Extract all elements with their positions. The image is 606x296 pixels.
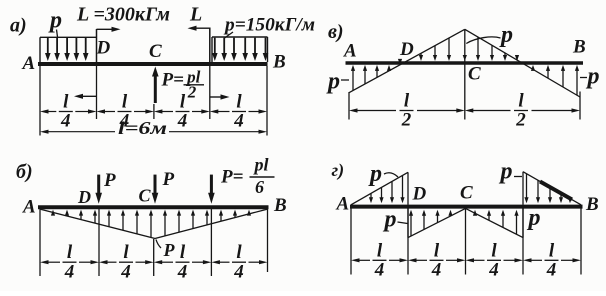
triangular load V on AB [40, 209, 268, 238]
svg-text:г): г) [332, 160, 345, 181]
svg-text:D: D [96, 38, 111, 59]
dimension l/4 (C-E) [154, 92, 210, 132]
dimension l/4 (C-E g) [466, 240, 524, 280]
svg-text:B: B [273, 195, 287, 216]
svg-text:A: A [343, 41, 357, 62]
svg-text:l: l [63, 92, 69, 113]
beam AB (diagram g) [350, 205, 583, 209]
moment L at D: arm and upper arrow [97, 27, 121, 62]
dimension l/4 (C-E b) [154, 242, 212, 282]
node label C (v) [468, 64, 481, 85]
svg-text:l: l [236, 242, 242, 263]
extension line at C (b) [153, 239, 155, 276]
beam AB (diagram a) [38, 62, 268, 66]
downward load arrows C-E (v) [476, 37, 519, 61]
dimension l/4 (D-C g) [408, 240, 466, 280]
svg-text:l: l [434, 240, 440, 261]
triangular load 3 on C-E below beam (g) [466, 208, 524, 237]
node label B (g) [585, 194, 599, 215]
svg-text:L: L [189, 4, 202, 26]
svg-text:2: 2 [187, 83, 197, 102]
extension line at D (b) [98, 209, 100, 276]
svg-text:2: 2 [515, 110, 526, 131]
svg-text:p: p [499, 159, 513, 185]
moment L at E: lower arrow [210, 94, 230, 99]
svg-text:P: P [163, 240, 176, 260]
node label C [149, 41, 162, 62]
svg-text:l: l [122, 92, 128, 113]
node label C (g) [460, 183, 473, 204]
svg-text:p: p [326, 69, 340, 95]
node label A (b) [22, 197, 36, 218]
svg-text:C: C [139, 186, 152, 206]
svg-text:p: p [383, 207, 397, 233]
extension line at A (b) [39, 209, 41, 276]
extension line at C with load arrowhead (v) [463, 29, 467, 119]
node label C (b) [139, 186, 152, 206]
triangular load 2 on D-C below beam (g) [408, 208, 466, 237]
force P=pl/6 at E (b) [208, 155, 274, 204]
svg-text:L =300кГм: L =300кГм [76, 4, 170, 26]
label a) [10, 15, 27, 37]
svg-text:l: l [404, 91, 410, 112]
label b) [16, 161, 33, 183]
extension line at B (g) [580, 208, 582, 274]
label v) [328, 21, 344, 43]
force P at C (b) [152, 169, 175, 204]
svg-text:B: B [272, 52, 286, 73]
dimension l/4 (A-D g) [351, 240, 408, 280]
node label D [96, 38, 111, 59]
triangular load 4 on E-B above beam (g) [523, 172, 581, 205]
label g) [332, 160, 345, 181]
svg-text:l: l [236, 92, 242, 113]
svg-text:P=: P= [161, 70, 184, 91]
svg-text:4: 4 [233, 261, 244, 282]
svg-text:а): а) [10, 15, 27, 37]
dimension l/2 (A-C v) [349, 91, 465, 131]
label P at load vertex (b) [156, 240, 176, 261]
dimension l/4 (D-C) [97, 92, 154, 132]
svg-text:B: B [572, 37, 586, 58]
extension line at C (g) [465, 208, 467, 274]
value label p=150kG/m [223, 15, 315, 38]
svg-text:l: l [180, 92, 186, 113]
svg-text:4: 4 [177, 111, 188, 132]
svg-text:P: P [103, 170, 116, 191]
moment L at E: arm and upper arrow [188, 26, 210, 62]
svg-text:l: l [377, 240, 383, 261]
node label A (v) [343, 41, 357, 62]
svg-text:C: C [149, 41, 162, 62]
svg-text:p: p [499, 22, 513, 48]
dimension l/4 (E-B) [210, 92, 267, 132]
dimension l=6m (A-B) [40, 118, 267, 138]
beam AB (diagram v) [346, 61, 584, 65]
label p left (v) [326, 69, 349, 95]
label p (load 2 g) [383, 207, 408, 233]
dimension l/4 (E-B b) [211, 242, 267, 282]
svg-text:p: p [48, 8, 62, 34]
dimension l/4 (E-B g) [523, 240, 581, 280]
svg-text:p: p [527, 205, 541, 231]
value label L=300kGm [76, 4, 170, 26]
extension line at A [39, 66, 41, 136]
svg-text:6: 6 [255, 177, 264, 197]
svg-text:l: l [491, 240, 497, 261]
force P=pl/2 at C [152, 67, 204, 104]
svg-text:4: 4 [177, 261, 188, 282]
extension line at E (b) [210, 209, 212, 276]
upward load arrows E-B (v) [531, 65, 579, 95]
svg-text:l: l [549, 240, 555, 261]
node label A (g) [336, 194, 350, 215]
svg-text:B: B [585, 194, 599, 215]
label p (load 4 g) [499, 159, 523, 185]
triangular load line peak to B (v) [465, 29, 580, 97]
extension line at E (g) [522, 208, 524, 274]
label L (moment at E) [189, 4, 202, 26]
dimension l/4 (A-D) [40, 92, 97, 132]
svg-text:l: l [67, 242, 73, 263]
upward load arrows A-D (v) [351, 59, 402, 91]
triangular load 1 on A-D above beam (g) [351, 172, 408, 205]
svg-text:l: l [518, 91, 524, 112]
moment L at D: lower arrow [74, 94, 97, 99]
extension line at E [209, 66, 211, 119]
downward load arrows D-C (v) [419, 38, 451, 61]
dimension l/2 (C-B v) [465, 91, 580, 131]
svg-text:C: C [460, 183, 473, 204]
label p right (v) [580, 64, 600, 90]
node label B [272, 52, 286, 73]
extension line at A (v) [348, 92, 350, 120]
svg-text:A: A [22, 197, 36, 218]
svg-text:D: D [399, 39, 414, 60]
force P at D (b) [95, 170, 116, 204]
svg-text:4: 4 [546, 260, 557, 281]
dimension l/4 (A-D b) [40, 242, 99, 282]
svg-text:4: 4 [374, 260, 385, 281]
extension line at C [153, 104, 155, 119]
svg-text:l: l [180, 242, 186, 263]
svg-text:D: D [77, 187, 91, 207]
triangular load line A to peak (v) [349, 29, 465, 92]
extension line at B (v) [579, 92, 581, 120]
svg-text:p: p [368, 161, 382, 187]
node label D (v) [399, 39, 414, 60]
distributed load p on E-B [212, 37, 268, 62]
svg-text:4: 4 [431, 260, 442, 281]
extension line at B (b) [267, 209, 269, 272]
svg-text:4: 4 [488, 260, 499, 281]
node label A [22, 53, 36, 74]
svg-text:p=150кГ/м: p=150кГ/м [223, 15, 315, 36]
extension line at D [96, 66, 98, 119]
svg-text:4: 4 [64, 261, 75, 282]
extension line at A (g) [350, 208, 352, 274]
node label D (g) [412, 184, 427, 205]
node label B (b) [273, 195, 287, 216]
svg-text:A: A [336, 194, 350, 215]
label p peak (v) [466, 22, 513, 48]
svg-text:l=6м: l=6м [118, 118, 167, 138]
svg-text:4: 4 [120, 261, 131, 282]
svg-text:pl: pl [252, 155, 268, 175]
dimension l/4 (D-C b) [99, 242, 154, 282]
beam AB (diagram b) [38, 205, 269, 209]
distributed load p on A-D [40, 37, 97, 62]
label p (load 1 g) [368, 161, 398, 187]
svg-text:D: D [412, 184, 427, 205]
extension line at B [266, 66, 268, 136]
extension line at D (g) [407, 208, 409, 274]
node label B (v) [572, 37, 586, 58]
svg-text:в): в) [328, 21, 344, 43]
svg-text:4: 4 [60, 111, 71, 132]
svg-text:A: A [22, 53, 36, 74]
label p (load 3 g) [527, 205, 541, 231]
svg-text:l: l [123, 242, 129, 263]
svg-text:б): б) [16, 161, 33, 183]
svg-text:P=: P= [220, 167, 243, 188]
svg-text:4: 4 [233, 111, 244, 132]
svg-text:P: P [162, 169, 175, 190]
svg-text:p: p [586, 64, 600, 90]
node label D (b) [77, 187, 91, 207]
label p (left load) [48, 8, 62, 38]
svg-text:2: 2 [401, 110, 412, 131]
svg-text:C: C [468, 64, 481, 85]
